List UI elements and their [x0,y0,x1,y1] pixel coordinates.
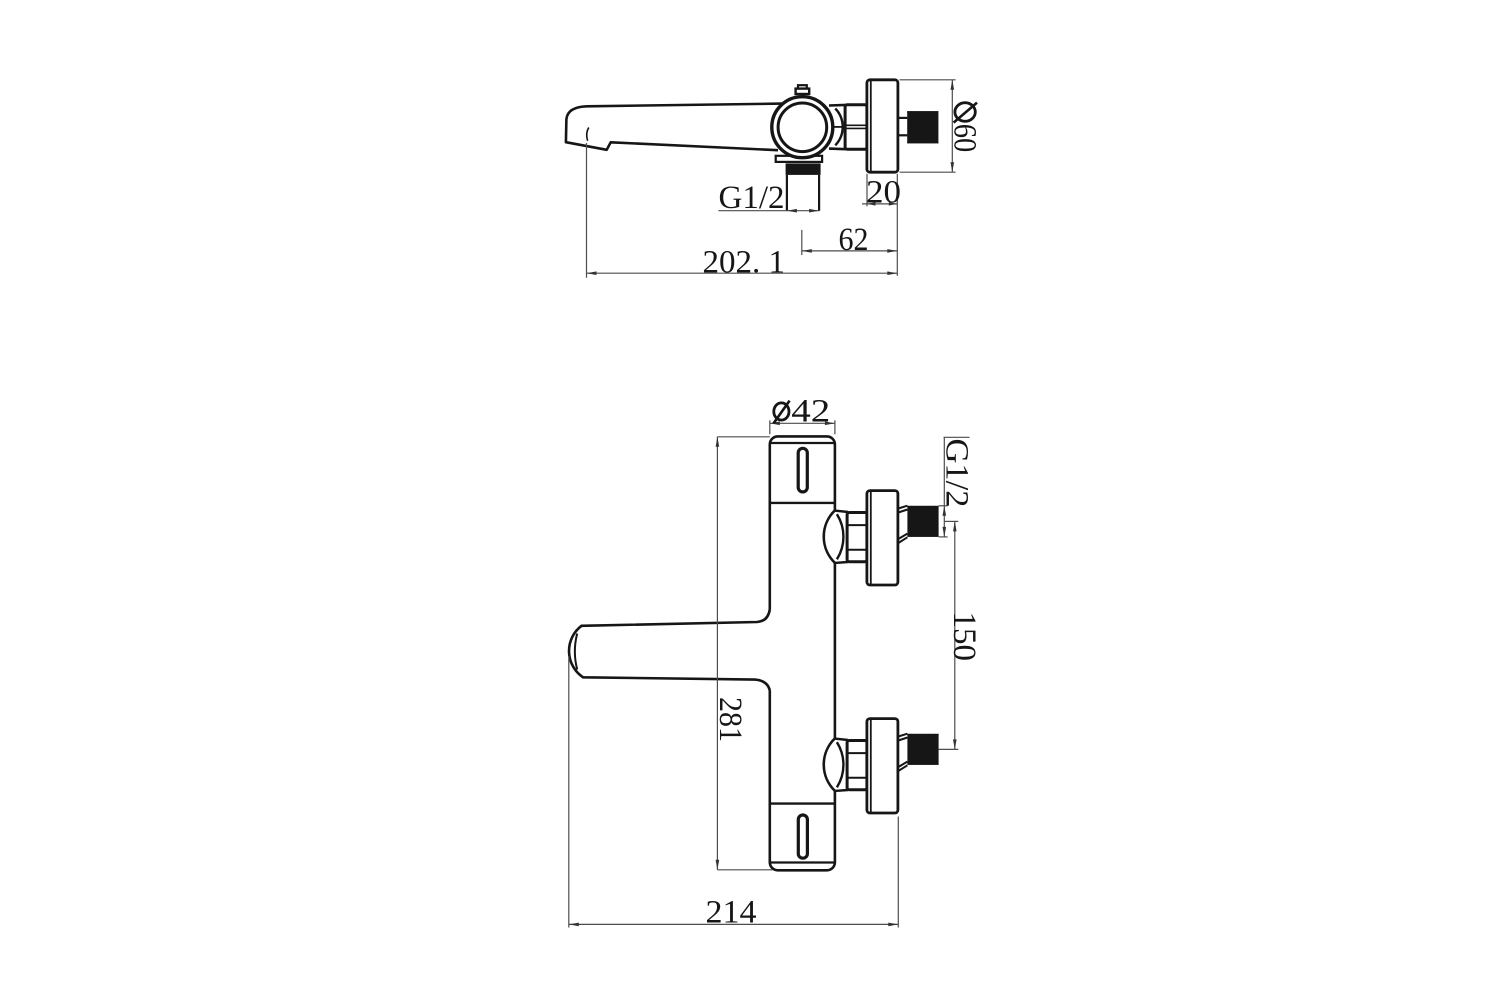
dimension 150: extensions [944,520,958,522]
label d60 [954,103,977,123]
body top cap seam [770,442,835,444]
svg-text:202. 1: 202. 1 [703,245,786,281]
outlet plate under valve body (top view) [776,156,822,162]
extension line wall face (right, shared by 20/62/202.1) [896,174,898,276]
dimension 214: left extension from spout [568,656,570,928]
dome joint (upper connection) [824,511,848,563]
wall flange (top view) [867,80,898,172]
dimension d60 line [951,80,953,172]
dimension 281: bottom extension [717,869,772,871]
svg-text:42: 42 [791,393,830,429]
extension lines at nipple (G1/2 bottom) [939,505,948,507]
dome joint edges between valve circle and nut (top view) [829,104,846,107]
hex nut mid seam lines (top view) [845,124,867,126]
dome joint (lower connection) [824,739,848,791]
hex nut (upper connection) [847,513,867,562]
valve body outer circle (top view) [772,97,833,158]
spout (top view) [566,104,782,151]
wall flange (upper connection) [867,491,898,585]
dimension G1/2 line (bottom view) [943,437,945,537]
label d42 [774,401,790,424]
taper joint flange to nipple (lower connection) [898,734,907,771]
threaded nipple G1/2 (top view) [907,111,938,143]
svg-text:20: 20 [866,174,901,210]
hex nut (lower connection) [847,741,867,790]
extension line flange left (20) [866,174,868,207]
dimension 281 line [716,437,718,870]
spout (bottom view) [569,610,772,691]
svg-text:214: 214 [706,894,757,930]
svg-text:62: 62 [839,222,869,258]
outlet pipe G1/2 (top view) [786,175,788,211]
dome centerline (top view) [833,126,846,128]
dimension 214: right extension from flange [897,817,899,928]
threaded nipple G1/2 (lower connection) [907,734,938,765]
dimension 150 line [954,521,956,749]
dimension 202.1 line [587,272,898,274]
dimension 62 line [802,250,898,252]
spout mouth inner lip (top view) [587,128,589,141]
extension lines d42 [769,420,771,434]
body lower divider [770,802,835,804]
pipe between flange and nipple (top view) [898,117,907,119]
hex nut (top view) [845,105,867,149]
main body column [770,436,835,870]
dimension 281: top extension [717,436,769,438]
extension line from spout tip (202.1 left) [586,143,588,278]
svg-text:G1/2: G1/2 [938,439,974,508]
svg-text:G1/2: G1/2 [719,180,785,216]
dimension 214 line [569,923,899,925]
dimension d42 line [770,422,835,424]
body bottom cap seam [770,861,835,863]
threaded nipple G1/2 (upper connection) [907,506,938,537]
wall flange (lower connection) [867,719,898,813]
wall flange inner edge line (top view) [870,81,872,172]
svg-text:60: 60 [947,124,983,153]
bottom slot on body [798,815,807,858]
taper joint flange to nipple (upper connection) [898,506,907,543]
dome joint inner arc (top view) [835,109,842,146]
black thread collar below valve body (top view) [786,163,821,175]
dimension G1/2 line (top view) [718,210,819,212]
svg-text:150: 150 [946,612,982,662]
extension tick at outlet center (62 left) [801,230,803,255]
extension lines flange corners (d60) [900,79,956,81]
body upper divider [770,502,835,504]
spout cap seam arc (bottom view) [575,634,577,670]
dimension 20 line [862,203,897,205]
dimension G1/2 (bottom view): top bar [944,436,970,438]
svg-text:281: 281 [712,697,748,742]
cap button on top of valve body (top view) [798,85,807,88]
top slot on body [798,448,807,492]
valve body inner circle (top view) [778,103,827,152]
